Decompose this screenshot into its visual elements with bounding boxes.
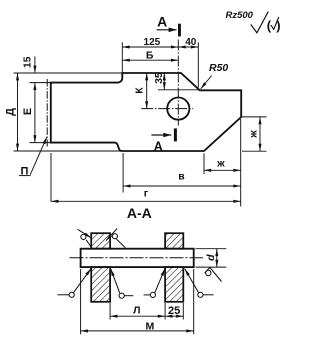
svg-text:125: 125: [144, 37, 161, 48]
svg-text:Rz500: Rz500: [226, 10, 254, 21]
svg-text:35: 35: [153, 72, 165, 84]
bar: [81, 249, 194, 267]
main part outline: [51, 73, 241, 151]
dim G (Г): [50, 153, 52, 202]
weld leader block1 top-right: [106, 229, 117, 241]
svg-text:М: М: [146, 321, 155, 333]
weld symbol lower right: [210, 268, 222, 282]
svg-text:Б: Б: [146, 50, 154, 62]
35 bottom extension: [158, 89, 200, 91]
E extension lines: [30, 82, 51, 84]
svg-text:15: 15: [23, 56, 34, 68]
dim K: [146, 73, 148, 109]
dimension D: [17, 73, 19, 151]
hole vertical centerline: [177, 40, 179, 126]
section arrow top: [157, 29, 177, 31]
zh horizontal dim: [203, 153, 205, 174]
dim d: [216, 249, 218, 267]
block2 bottom: [165, 267, 183, 302]
svg-text:R50: R50: [209, 62, 228, 74]
weld leader bottom c3: [144, 294, 151, 296]
hole: [167, 98, 189, 120]
M extension lines: [80, 269, 82, 334]
svg-text:Е: Е: [22, 108, 34, 115]
svg-text:): ): [276, 18, 280, 33]
svg-text:г: г: [144, 188, 149, 200]
dimension 15 and E line: [34, 57, 36, 74]
Rz500 check mark: [251, 12, 268, 33]
svg-text:А: А: [154, 139, 163, 153]
zh vertical dim: [241, 116, 266, 118]
block1 bottom: [91, 267, 110, 302]
dim M: [81, 330, 194, 332]
svg-text:К: К: [134, 87, 146, 94]
right extension: [240, 119, 242, 207]
svg-text:(: (: [267, 18, 272, 33]
section arrow bottom: [151, 134, 171, 136]
(v) check: [271, 17, 279, 29]
dim L: [110, 315, 165, 317]
dim B (Б): [122, 59, 178, 61]
d extensions: [196, 248, 227, 250]
svg-text:d: d: [205, 254, 217, 261]
svg-text:в: в: [178, 171, 185, 183]
svg-text:А: А: [157, 14, 167, 30]
dim 35: [163, 73, 165, 90]
dim 40: [178, 46, 198, 48]
svg-text:40: 40: [185, 37, 197, 48]
ext lines for 125/40: [121, 42, 123, 72]
dim 125: [122, 46, 178, 48]
weld leader bottom c1: [58, 294, 70, 296]
dim V (В): [122, 153, 124, 193]
svg-text:ж: ж: [216, 158, 225, 170]
dash-dot line P: [46, 79, 48, 147]
svg-text:А-А: А-А: [127, 205, 152, 221]
dim 25: [165, 315, 183, 317]
hole horizontal centerline / K extension: [141, 108, 193, 110]
svg-text:ж: ж: [248, 130, 260, 139]
weld leader block1 top-left: [78, 229, 92, 238]
svg-text:П: П: [21, 166, 29, 178]
svg-text:25: 25: [168, 305, 180, 317]
svg-text:Л: Л: [133, 305, 140, 317]
bar centerline: [70, 257, 204, 259]
weld leader bottom c4: [203, 294, 214, 296]
weld leader bottom c2: [124, 295, 133, 297]
extension line bottom (y=150.5): [14, 150, 122, 152]
extension line top (y=73): [14, 72, 123, 74]
leader P: [30, 137, 47, 175]
block2 top: [165, 233, 183, 249]
chain extension lines L/25: [109, 303, 111, 320]
block1 top: [91, 233, 110, 249]
svg-text:Д: Д: [5, 108, 17, 116]
R50 leader: [201, 76, 212, 90]
